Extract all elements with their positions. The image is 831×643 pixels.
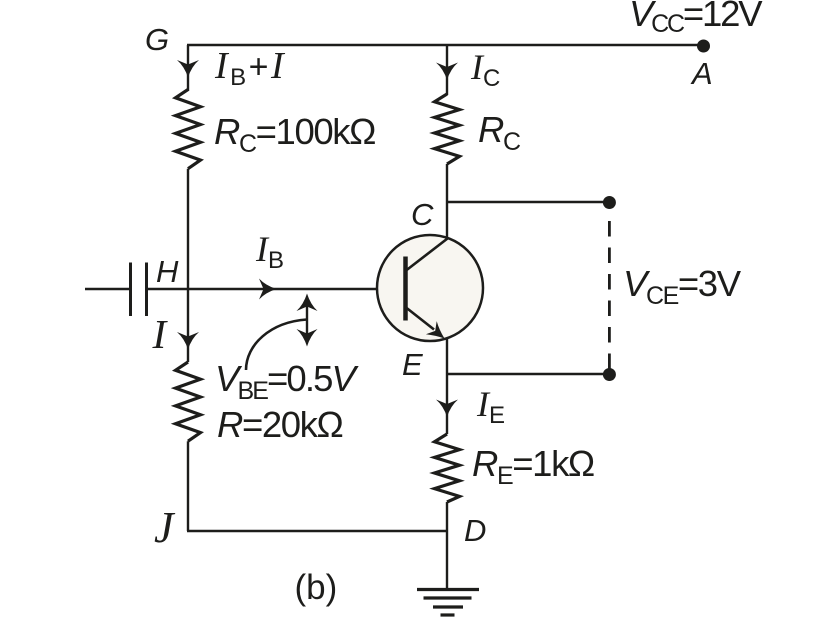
node dot emitter tap bbox=[603, 368, 616, 381]
curved leader VBE to base wire bbox=[246, 320, 307, 371]
capacitor left plate bbox=[129, 263, 132, 317]
wire emitter segment (transistor down to RE) bbox=[446, 339, 448, 435]
wire collector segment (RC to transistor) bbox=[446, 164, 448, 239]
transistor collector diagonal bbox=[406, 239, 448, 271]
node A dot bbox=[697, 40, 710, 53]
capacitor right plate bbox=[145, 263, 148, 317]
resistor R=20k zigzag bbox=[176, 362, 201, 441]
transistor emitter diagonal bbox=[406, 308, 434, 330]
svg-text:(b): (b) bbox=[295, 568, 338, 607]
transistor base bar bbox=[403, 257, 408, 321]
svg-text:D: D bbox=[464, 513, 486, 548]
dashed line VCE between taps bbox=[608, 221, 611, 369]
wire emitter tap to VCE lower dot bbox=[447, 373, 609, 375]
wire collector tap to VCE upper dot bbox=[447, 201, 609, 203]
wire top rail G to A bbox=[187, 44, 703, 46]
wire emitter lower segment (RE to D) bbox=[446, 502, 448, 531]
wire input lead left of capacitor bbox=[85, 288, 131, 290]
svg-text:VCE=3V: VCE=3V bbox=[623, 263, 742, 310]
svg-text:E: E bbox=[402, 347, 423, 382]
transistor Q1 circle bbox=[377, 235, 483, 341]
svg-text:J: J bbox=[154, 503, 176, 552]
svg-text:H: H bbox=[156, 254, 179, 289]
transistor emitter arrowhead bbox=[426, 321, 445, 338]
svg-text:VBE=0.5V: VBE=0.5V bbox=[215, 358, 359, 405]
arrow current IC downward bbox=[436, 63, 458, 81]
svg-text:I: I bbox=[152, 311, 169, 357]
resistor RC zigzag (collector) bbox=[435, 94, 460, 164]
svg-text:VCC=12V: VCC=12V bbox=[629, 0, 763, 38]
arrow current IB rightward on base wire bbox=[259, 279, 277, 300]
svg-text:C: C bbox=[411, 197, 434, 232]
double arrow VBE down head bbox=[297, 329, 318, 347]
wire right branch upper segment (top rail down to RC) bbox=[446, 45, 448, 95]
svg-text:IB+I: IB+I bbox=[214, 45, 286, 91]
double arrow VBE up head bbox=[297, 294, 318, 312]
ground symbol bbox=[417, 590, 479, 616]
arrow current IB+I downward bbox=[177, 60, 199, 78]
wire bottom rail J to D bbox=[187, 530, 447, 532]
svg-text:RC=100kΩ: RC=100kΩ bbox=[214, 111, 375, 158]
wire D to ground bbox=[446, 531, 448, 589]
arrow current I downward on left branch bbox=[177, 332, 199, 350]
svg-text:A: A bbox=[690, 56, 713, 91]
wire left branch upper segment (G down to resistor) bbox=[187, 45, 189, 91]
resistor RE=1k zigzag bbox=[435, 434, 460, 502]
svg-text:RE=1kΩ: RE=1kΩ bbox=[472, 443, 594, 490]
double arrow VBE shaft bbox=[306, 299, 308, 341]
svg-text:R=20kΩ: R=20kΩ bbox=[217, 404, 343, 445]
wire base lead H to transistor base bbox=[147, 288, 378, 290]
resistor RC=100k zigzag bbox=[176, 90, 201, 169]
arrow current IE downward bbox=[436, 400, 458, 418]
node dot collector tap bbox=[603, 196, 616, 209]
wire left branch lower segment (R down to J) bbox=[187, 441, 189, 531]
wire left branch middle segment (resistor to junction H/I and down to R) bbox=[187, 169, 189, 362]
svg-text:G: G bbox=[145, 22, 169, 57]
